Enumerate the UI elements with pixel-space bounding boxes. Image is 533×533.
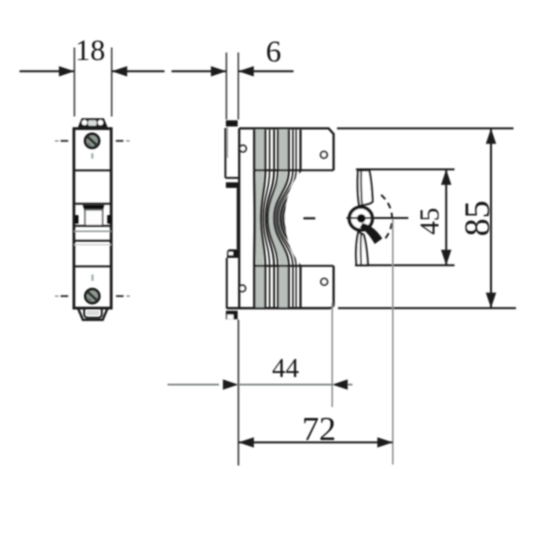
dim 45 arrow up xyxy=(441,169,451,185)
side view bracket bottom plate xyxy=(226,258,228,309)
front view toggle bottom line xyxy=(74,225,111,227)
front view toggle recess top line xyxy=(74,203,111,205)
front view faint band line xyxy=(74,244,111,246)
dim 72 line xyxy=(238,441,392,443)
dim 18 line left segment xyxy=(20,70,75,72)
front view ON marking xyxy=(91,153,93,158)
toggle knob xyxy=(349,207,372,230)
dim 18 extension line left xyxy=(73,48,75,117)
dim 85 line xyxy=(490,128,492,308)
dim 6 extension line right xyxy=(237,53,239,120)
front view bottom terminal screw xyxy=(85,289,99,303)
dim 85 arrow down xyxy=(486,293,496,309)
dim 72 right extension line xyxy=(392,219,394,465)
dim 85 bottom extension line xyxy=(338,307,516,309)
svg-text:85: 85 xyxy=(457,200,497,236)
dim 44 arrow left xyxy=(223,379,239,389)
front view bottom cap xyxy=(78,309,107,320)
toggle travel dashed arc xyxy=(381,195,392,241)
front view bottom section line xyxy=(74,265,111,267)
front view band line A xyxy=(74,240,111,242)
dim 45 line xyxy=(445,169,447,265)
side view bracket middle edge xyxy=(237,188,239,250)
front view body outline xyxy=(74,129,111,309)
front view OFF marking xyxy=(91,275,93,281)
side view bottom rib band xyxy=(255,266,264,307)
front view top screw centerline xyxy=(55,140,59,142)
dim 6 line left segment xyxy=(172,70,227,72)
dim 44 arrow right xyxy=(332,379,348,389)
dim 6 line right segment xyxy=(238,70,293,72)
side view bracket hole top xyxy=(240,145,247,152)
svg-text:45: 45 xyxy=(414,208,444,235)
side view top din tab xyxy=(226,120,238,126)
side view bracket hole bottom xyxy=(239,285,245,291)
toggle centerline xyxy=(347,217,409,219)
dim 18 line right segment xyxy=(112,70,165,72)
dim 85 top extension line xyxy=(337,127,514,129)
dim 72 arrow left xyxy=(238,437,254,447)
dim 6 extension line left xyxy=(225,53,227,120)
dim 44 right extension line xyxy=(331,303,333,408)
dim 44 line xyxy=(168,384,220,386)
dim 6 arrow right xyxy=(238,66,254,76)
toggle lower blade xyxy=(356,232,368,265)
svg-text:18: 18 xyxy=(75,34,105,67)
svg-text:72: 72 xyxy=(302,411,336,448)
side view bracket tab 2 xyxy=(226,182,239,188)
dim 6 arrow left xyxy=(211,66,227,76)
side view toggle recess bottom line xyxy=(254,265,333,267)
front view faint line under toggle xyxy=(74,230,111,232)
svg-text:44: 44 xyxy=(272,353,300,383)
front view toggle handle xyxy=(85,210,103,226)
side view toggle recess top line xyxy=(254,169,333,171)
toggle knob center dot xyxy=(357,214,366,223)
dim 18 arrow right xyxy=(112,66,128,76)
front view bottom screw centerline xyxy=(55,295,59,297)
side view top rib band xyxy=(255,130,264,171)
side view body outline xyxy=(227,128,334,308)
front view top cap xyxy=(78,119,108,129)
toggle off-position blade xyxy=(360,223,383,244)
dim 72 arrow right xyxy=(377,437,393,447)
front view top section line xyxy=(74,169,111,171)
front view toggle recess left block xyxy=(75,215,79,224)
side view bracket bottom tab xyxy=(226,311,238,320)
dim 45 bottom extension line xyxy=(355,264,455,266)
svg-text:6: 6 xyxy=(266,34,282,69)
front view toggle recess right block xyxy=(107,215,111,224)
side view bracket top plate xyxy=(224,128,226,178)
front view toggle dark bar xyxy=(83,205,105,211)
front view top terminal screw xyxy=(85,134,99,148)
side view bracket clip hook xyxy=(227,249,239,258)
side view rivet bottom xyxy=(321,279,328,286)
dim 45 arrow down xyxy=(441,250,451,265)
toggle upper blade xyxy=(358,170,373,205)
dim 18 extension line right xyxy=(111,48,113,117)
dim 85 arrow up xyxy=(486,128,496,144)
dim 18 arrow left xyxy=(59,66,75,76)
side view rivet top xyxy=(321,152,328,159)
toggle centerline dash left xyxy=(303,217,315,219)
dim 45 top extension line xyxy=(356,168,455,170)
dim 44 left extension line xyxy=(237,320,239,466)
